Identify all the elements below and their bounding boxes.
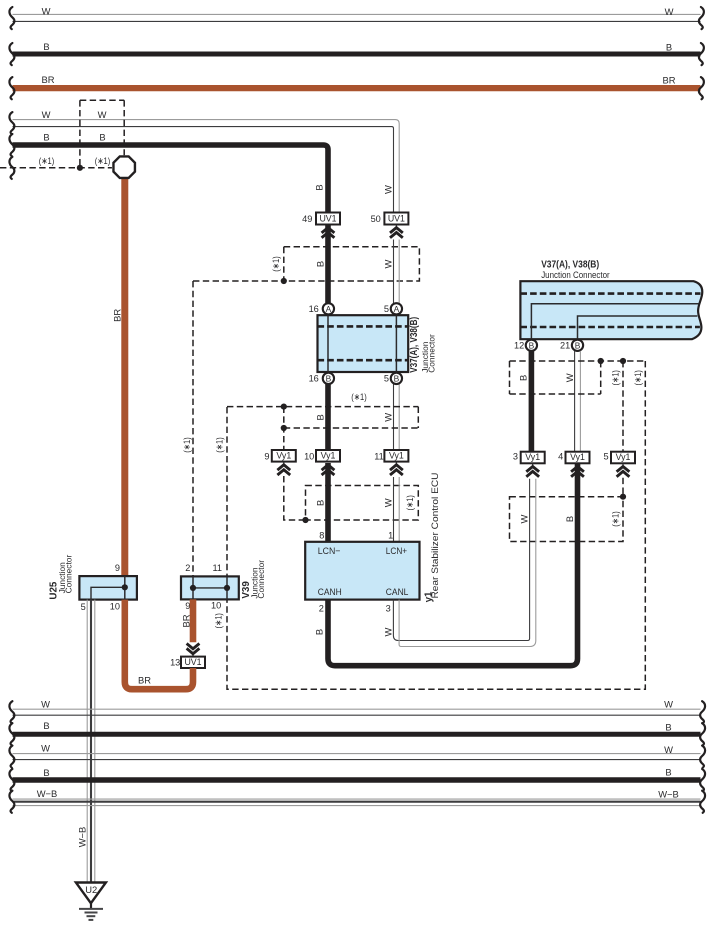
svg-text:W: W xyxy=(665,6,674,17)
wire B vertical (49 UV1 to 10 Vy1) xyxy=(313,184,328,449)
svg-text:2: 2 xyxy=(185,563,190,573)
wire (*1) dashed (to 5 Vy1) xyxy=(622,361,624,452)
wire (*1) dashed 9 Vy1 to mid dashed box xyxy=(284,476,306,520)
pin 5 (A) of V37(A) xyxy=(384,303,402,314)
ground U2 xyxy=(76,883,106,920)
wire W bus (top row 1) xyxy=(9,6,703,30)
wire B vertical (10 Vy1 to ECU pin 8) xyxy=(325,463,331,542)
svg-text:B: B xyxy=(313,629,324,635)
svg-text:B: B xyxy=(666,41,672,52)
svg-text:8: 8 xyxy=(319,531,324,541)
connector 11 Vy1 xyxy=(374,450,408,475)
svg-text:16: 16 xyxy=(309,373,319,383)
svg-text:11: 11 xyxy=(212,563,222,573)
wire W vertical (50 UV1 to 11 Vy1) xyxy=(383,185,400,450)
svg-text:12: 12 xyxy=(514,341,524,351)
wire BR (U25 pin 10 to 13 UV1 bottom) xyxy=(125,600,193,690)
svg-text:Vy1: Vy1 xyxy=(276,451,291,461)
svg-text:B: B xyxy=(564,516,575,522)
svg-text:3: 3 xyxy=(386,603,391,613)
svg-text:BR: BR xyxy=(662,75,675,86)
svg-text:B: B xyxy=(394,373,400,383)
svg-text:W: W xyxy=(664,744,673,755)
svg-text:W: W xyxy=(42,109,51,120)
junction dot right box a xyxy=(598,358,604,364)
svg-text:(∗1): (∗1) xyxy=(351,391,367,402)
svg-text:Vy1: Vy1 xyxy=(389,451,404,461)
wire B bus (top row 2) xyxy=(9,41,703,65)
svg-text:W−B: W−B xyxy=(37,788,58,799)
svg-text:Vy1: Vy1 xyxy=(525,452,540,462)
svg-text:B: B xyxy=(43,767,49,778)
connector 9 Vy1 xyxy=(264,450,295,475)
svg-text:UV1: UV1 xyxy=(319,213,336,223)
svg-text:A: A xyxy=(326,304,332,314)
junction dot at dashed box corner xyxy=(281,278,287,284)
svg-text:B: B xyxy=(575,340,581,350)
shield dashed boundary xyxy=(227,361,645,689)
wire (*1) dashed (to 9 Vy1) xyxy=(283,407,285,450)
svg-text:W: W xyxy=(383,413,394,422)
svg-text:Connector: Connector xyxy=(63,555,73,594)
svg-text:10: 10 xyxy=(110,602,120,612)
pin 21 (B) of right junction connector xyxy=(560,340,583,351)
wire W-B bus (bottom row 5) xyxy=(9,788,705,813)
svg-text:B: B xyxy=(315,261,326,267)
svg-text:W−B: W−B xyxy=(658,789,679,800)
svg-text:(∗1): (∗1) xyxy=(214,437,225,453)
svg-text:4: 4 xyxy=(558,451,563,461)
svg-text:Vy1: Vy1 xyxy=(570,452,585,462)
svg-text:B: B xyxy=(99,132,105,143)
svg-text:(∗1): (∗1) xyxy=(212,613,223,629)
svg-text:CANH: CANH xyxy=(318,586,342,597)
junction dot strip upper xyxy=(281,404,287,410)
svg-text:16: 16 xyxy=(309,304,319,314)
wire B CANH path (ECU pin 2 to 4 Vy1) xyxy=(313,463,577,666)
junction connector V39 xyxy=(181,560,266,629)
junction dot on (*1) bus xyxy=(77,165,83,171)
svg-text:V37(A), V38(B): V37(A), V38(B) xyxy=(409,317,420,373)
svg-text:W: W xyxy=(383,185,394,194)
node octagon shield junction xyxy=(113,156,134,177)
dashed strip (*1) above Vy1 row xyxy=(227,391,418,428)
wire (*1) dashed 5 Vy1 to mid-right box xyxy=(622,478,624,497)
svg-text:B: B xyxy=(315,500,326,506)
svg-text:(∗1): (∗1) xyxy=(181,437,192,453)
svg-text:2: 2 xyxy=(319,603,324,613)
connector 3 Vy1 xyxy=(513,451,545,476)
pin 5 (B) of V38(B) xyxy=(384,373,402,384)
pin 12 (B) of right junction connector xyxy=(514,340,537,351)
dashed box (*1) mid-right xyxy=(510,497,624,542)
svg-text:9: 9 xyxy=(115,563,120,573)
svg-text:B: B xyxy=(43,41,49,52)
chevron into 13 UV1 xyxy=(187,644,200,658)
svg-text:(∗1): (∗1) xyxy=(609,370,620,386)
connector 50 UV1 xyxy=(371,213,409,238)
junction dot mid-left box xyxy=(302,517,308,523)
svg-text:UV1: UV1 xyxy=(184,657,201,667)
svg-text:10: 10 xyxy=(211,601,221,611)
svg-text:(∗1): (∗1) xyxy=(95,155,111,166)
svg-text:A: A xyxy=(394,304,400,314)
svg-text:W: W xyxy=(42,6,51,17)
svg-text:V37(A), V38(B): V37(A), V38(B) xyxy=(541,259,599,270)
svg-text:W: W xyxy=(98,109,107,120)
svg-text:UV1: UV1 xyxy=(388,213,405,223)
dashed box (*1) top-left xyxy=(80,100,124,166)
svg-text:W: W xyxy=(41,743,50,754)
svg-text:Rear Stabilizer Control ECU: Rear Stabilizer Control ECU xyxy=(430,473,440,599)
svg-text:W: W xyxy=(564,373,575,382)
svg-text:BR: BR xyxy=(111,309,122,322)
svg-text:3: 3 xyxy=(513,451,518,461)
svg-text:W: W xyxy=(383,498,394,507)
svg-text:LCN+: LCN+ xyxy=(386,545,408,556)
svg-text:5: 5 xyxy=(603,451,608,461)
ECU y1 Rear Stabilizer Control ECU xyxy=(305,473,440,614)
svg-text:U2: U2 xyxy=(85,884,97,895)
connector 13 UV1 xyxy=(170,657,205,668)
svg-text:Vy1: Vy1 xyxy=(616,452,631,462)
svg-text:5: 5 xyxy=(81,602,86,612)
svg-text:Connector: Connector xyxy=(256,560,266,599)
svg-text:(∗1): (∗1) xyxy=(270,256,281,272)
wire BR bus (top row 3) xyxy=(9,74,703,99)
wire W vertical (11 Vy1 to ECU pin 1) xyxy=(394,477,400,542)
svg-text:5: 5 xyxy=(384,373,389,383)
wire B vertical (pin 12 to 3 Vy1) xyxy=(529,351,535,452)
svg-text:5: 5 xyxy=(384,304,389,314)
wire (*1) dashed bus (top row 6) xyxy=(0,155,112,179)
svg-text:9: 9 xyxy=(264,451,269,461)
junction connector V37(A), V38(B) right xyxy=(520,259,702,339)
svg-text:(∗1): (∗1) xyxy=(39,155,55,166)
svg-text:Connector: Connector xyxy=(426,334,436,373)
svg-text:(∗1): (∗1) xyxy=(609,511,620,527)
svg-text:W: W xyxy=(383,627,394,636)
wire BR (V39 pin 9 down to 13 UV1) xyxy=(180,599,193,642)
svg-text:10: 10 xyxy=(304,451,314,461)
svg-text:B: B xyxy=(518,375,529,381)
svg-text:W−B: W−B xyxy=(77,827,88,848)
svg-text:B: B xyxy=(326,373,332,383)
junction dot mid-right box xyxy=(620,494,626,500)
svg-text:B: B xyxy=(43,720,49,731)
svg-text:9: 9 xyxy=(185,601,190,611)
svg-text:W: W xyxy=(519,514,530,523)
wire W CANL path (ECU pin 3 to 3 Vy1) xyxy=(383,479,536,647)
wire B bus (top row 5, turns down to 49 UV1) xyxy=(9,132,328,213)
svg-text:BR: BR xyxy=(41,74,54,85)
svg-text:CANL: CANL xyxy=(386,586,409,597)
junction connector V37(A), V38(B) middle xyxy=(318,315,437,373)
pin 16 (B) of V38(B) xyxy=(309,373,334,384)
junction connector U25 xyxy=(49,555,137,612)
svg-text:(∗1): (∗1) xyxy=(632,370,643,386)
svg-text:B: B xyxy=(665,722,671,733)
wire (*1) dashed V39 pin 11 riser xyxy=(214,407,227,576)
svg-text:Vy1: Vy1 xyxy=(321,451,336,461)
dashed box (*1) right upper xyxy=(510,361,646,394)
wire B bus (bottom row 2) xyxy=(9,720,705,745)
svg-text:B: B xyxy=(315,414,326,420)
svg-text:Junction Connector: Junction Connector xyxy=(541,270,610,280)
svg-text:BR: BR xyxy=(138,675,151,686)
svg-text:13: 13 xyxy=(170,657,180,667)
wire W bus (bottom row 1) xyxy=(9,698,705,723)
wire W-B vertical (U25 pin 5 to ground U2) xyxy=(77,600,95,882)
svg-text:W: W xyxy=(664,698,673,709)
svg-text:B: B xyxy=(665,766,671,777)
dashed box (*1) above junction connector xyxy=(270,247,419,281)
svg-text:W: W xyxy=(41,698,50,709)
svg-text:49: 49 xyxy=(302,214,312,224)
wire BR vertical (octagon to U25 pin 9) xyxy=(111,176,125,577)
connector 10 Vy1 xyxy=(304,450,340,475)
connector 4 Vy1 xyxy=(558,451,589,476)
wire W bus (top row 4, turns down to 50 UV1) xyxy=(9,109,399,213)
connector 49 UV1 xyxy=(302,213,340,238)
wire B bus (bottom row 4) xyxy=(9,766,705,791)
wire W bus (bottom row 3) xyxy=(9,743,705,768)
junction dot strip lower xyxy=(281,425,287,431)
svg-text:B: B xyxy=(529,340,535,350)
svg-text:1: 1 xyxy=(388,531,393,541)
svg-text:LCN−: LCN− xyxy=(318,545,341,556)
dashed box (*1) mid-left xyxy=(306,486,419,521)
wire W vertical (pin 21 to 4 Vy1) xyxy=(575,351,581,452)
svg-text:W: W xyxy=(383,259,394,268)
svg-text:(∗1): (∗1) xyxy=(404,495,415,511)
svg-text:B: B xyxy=(43,132,49,143)
svg-text:11: 11 xyxy=(374,451,384,461)
junction dot right box b xyxy=(620,358,626,364)
svg-text:50: 50 xyxy=(371,214,381,224)
svg-text:BR: BR xyxy=(180,614,191,627)
svg-text:B: B xyxy=(313,184,324,190)
wire (*1) dashed from box corner down to V39 pin 2 xyxy=(181,281,284,576)
connector 5 Vy1 xyxy=(603,451,635,476)
pin 16 (A) of V37(A) xyxy=(309,303,334,314)
svg-text:21: 21 xyxy=(560,341,570,351)
